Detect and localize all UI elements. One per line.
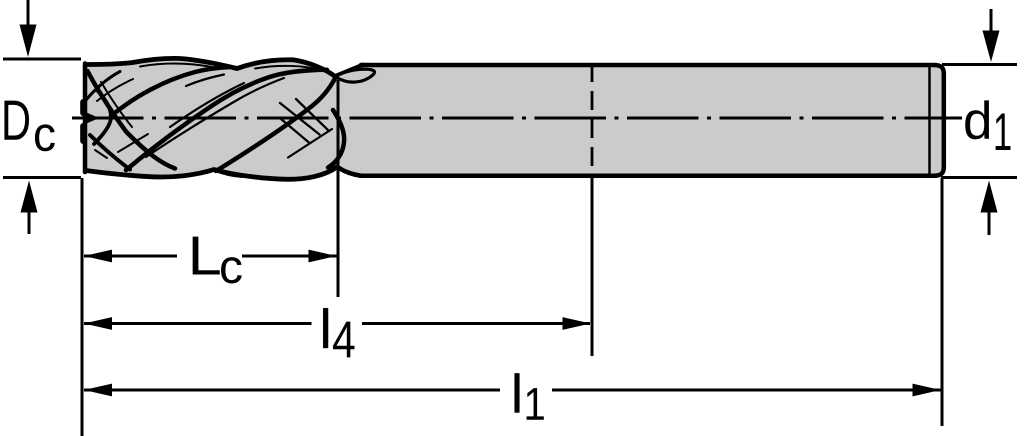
flute runout gray lens — [336, 69, 375, 82]
Dc upper arrow shaft — [27, 0, 30, 26]
shank outline (top, rounded right end, bottom) — [360, 65, 944, 176]
label Lc - c subscript — [221, 257, 242, 283]
l1 right arrowhead — [913, 384, 941, 397]
Dc upper extension line — [3, 58, 81, 61]
tool body fill (flutes + shank silhouette) — [86, 58, 944, 179]
l4 right arrowhead — [563, 317, 591, 330]
l4 right extension line — [591, 178, 594, 356]
Lc left arrowhead — [84, 250, 112, 263]
Lc right extension line — [337, 80, 340, 297]
upper-left thin face line — [97, 79, 133, 101]
label l4 - 4 subscript — [333, 322, 354, 358]
transition gash hatch 3 — [296, 99, 329, 131]
l1 dimension line right segment — [552, 389, 941, 392]
Lc dimension line left segment — [84, 255, 177, 258]
thin helix companion th1 — [170, 83, 244, 127]
thin helix companion th2 — [146, 78, 284, 157]
tool left edge — [83, 64, 88, 173]
left measure extension line — [81, 178, 84, 436]
Dc lower arrow shaft — [28, 210, 31, 234]
flute top silhouette — [86, 58, 335, 76]
helix land edge U2 (long middle sweep) — [126, 70, 327, 170]
Lc right arrowhead — [309, 250, 337, 263]
transition gash hatch 1 — [280, 103, 320, 135]
center point wedge — [84, 112, 98, 124]
label Lc - L — [193, 237, 220, 275]
flute bottom silhouette — [86, 167, 337, 180]
transition gash hatch 2 — [281, 119, 310, 143]
end tooth chevron at left center — [94, 90, 111, 144]
Dc lower extension line — [3, 176, 81, 179]
l1 dimension line left segment — [84, 389, 500, 392]
l4 dimension line right segment — [362, 322, 590, 325]
label d1 - d — [965, 100, 989, 139]
label l4 - l — [323, 308, 328, 348]
end tooth edge T1b (down-right lower left) — [90, 135, 130, 170]
bottom cusp echo arc 1 — [214, 171, 242, 178]
d1 lower extension line — [941, 176, 1017, 179]
Lc dimension line right segment — [242, 255, 337, 258]
label d1 - 1 subscript — [996, 114, 1011, 150]
d1 upper arrowhead — [983, 31, 1000, 63]
flute runout falling edge (bottom) — [337, 167, 362, 176]
d1 lower arrowhead — [981, 181, 998, 213]
bottom cusp echo arc 2 — [338, 167, 368, 176]
left end gash hatch — [95, 150, 107, 158]
last flute land rounded tip — [328, 110, 344, 168]
Dc lower arrowhead — [21, 181, 38, 213]
end tooth edge T1 (down-right from top corner) — [88, 71, 176, 169]
label l1 - l — [515, 373, 520, 412]
thin helix companion th5 — [288, 129, 332, 158]
thin helix companion th4 — [118, 134, 148, 152]
label l1 - 1 subscript — [527, 388, 544, 420]
inner margin curve of top lobe 2 — [255, 66, 324, 71]
end tooth edge T1 thin companion — [101, 82, 132, 127]
Dc upper arrowhead — [20, 25, 37, 58]
thin helix companion th3 — [186, 75, 224, 87]
helix land edge U3 (bottom cusp to curl) — [216, 78, 336, 172]
l1 left arrowhead — [84, 384, 112, 397]
l4 boundary dashed line on shank — [591, 63, 594, 176]
label Dc - c subscript — [35, 124, 55, 151]
flute runout rising edge — [335, 65, 363, 77]
label Dc - D — [4, 101, 29, 140]
l4 left arrowhead — [84, 317, 112, 330]
helix land edge U1 (chevron tip to top) — [111, 67, 230, 116]
d1 lower arrow shaft — [988, 212, 991, 235]
left edge tooth bump upper — [80, 102, 86, 113]
d1 upper arrow shaft — [990, 9, 993, 33]
top-left tooth face edge T6 — [86, 72, 120, 101]
l4 dimension line left segment — [84, 322, 312, 325]
centerline (dash-dot axis) — [72, 117, 962, 120]
shank end face line — [928, 67, 931, 175]
d1 upper extension line — [942, 63, 1017, 66]
inner margin curve of top lobe 1 — [140, 64, 212, 67]
left edge tooth bump lower — [80, 126, 86, 141]
l1 right extension line — [941, 178, 944, 426]
